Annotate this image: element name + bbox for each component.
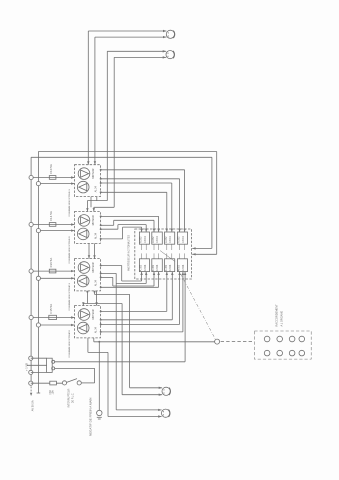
svg-text:AL 34: AL 34	[94, 186, 97, 193]
svg-text:AL 34: AL 34	[94, 232, 97, 239]
svg-text:AV 30 5A: AV 30 5A	[31, 400, 35, 411]
svg-text:A1 B2: A1 B2	[165, 264, 168, 271]
svg-text:COMMANDE LEVE VITRE AV G: COMMANDE LEVE VITRE AV G	[68, 189, 71, 217]
svg-text:A1 B2: A1 B2	[140, 264, 143, 271]
svg-text:RACCORDEMENT: RACCORDEMENT	[275, 304, 279, 327]
svg-text:COMMANDE LEVE VITRE AR G: COMMANDE LEVE VITRE AR G	[68, 282, 71, 310]
svg-text:F15 5A: F15 5A	[49, 304, 53, 314]
svg-text:F10 5A: F10 5A	[49, 164, 53, 174]
svg-text:10A: 10A	[52, 390, 55, 395]
svg-text:A1 B2: A1 B2	[178, 236, 181, 243]
svg-text:AL 34: AL 34	[94, 279, 97, 286]
svg-text:A1 B2: A1 B2	[152, 236, 155, 243]
svg-text:C3 D4: C3 D4	[145, 236, 147, 243]
svg-text:COMMANDE LEVE VITRE AR D: COMMANDE LEVE VITRE AR D	[68, 329, 71, 357]
svg-text:C3 D4: C3 D4	[183, 264, 185, 271]
svg-text:COMMANDE LEVE VITRE AV D: COMMANDE LEVE VITRE AV D	[68, 236, 71, 264]
svg-text:DE P.L.C.: DE P.L.C.	[72, 393, 75, 404]
svg-text:A L ORGANE: A L ORGANE	[280, 311, 284, 327]
svg-text:MOTEUR: MOTEUR	[93, 215, 95, 225]
svg-text:AL 34: AL 34	[94, 326, 97, 333]
svg-text:C3 D4: C3 D4	[145, 264, 147, 271]
svg-text:C3 D4: C3 D4	[170, 236, 172, 243]
svg-text:C3 D4: C3 D4	[157, 264, 159, 271]
svg-text:MOTEUR: MOTEUR	[93, 262, 95, 272]
svg-text:F36 5A: F36 5A	[49, 258, 53, 268]
svg-text:+ 1 VB: + 1 VB	[25, 363, 29, 371]
svg-text:MOTEUR: MOTEUR	[93, 168, 95, 178]
svg-text:A1 B2: A1 B2	[152, 264, 155, 271]
svg-text:AVERTISSEUR A 2 TONALITES: AVERTISSEUR A 2 TONALITES	[127, 235, 130, 271]
svg-text:F14 5A: F14 5A	[49, 211, 53, 221]
svg-text:A1 B2: A1 B2	[140, 236, 143, 243]
svg-text:MOTEUR: MOTEUR	[93, 309, 95, 319]
svg-text:C3 D4: C3 D4	[157, 236, 159, 243]
svg-text:C3 D4: C3 D4	[183, 236, 185, 243]
svg-text:NEGATIF DE FREIN A MAIN: NEGATIF DE FREIN A MAIN	[88, 398, 92, 436]
svg-text:A1 B2: A1 B2	[178, 264, 181, 271]
svg-text:C3 D4: C3 D4	[170, 264, 172, 271]
svg-text:A1 B2: A1 B2	[165, 236, 168, 243]
svg-text:INTERRUPTEUR: INTERRUPTEUR	[68, 388, 71, 407]
